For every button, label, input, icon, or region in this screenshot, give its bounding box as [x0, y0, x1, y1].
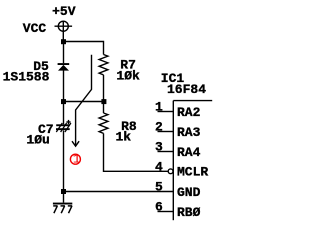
svg-text:5: 5: [155, 180, 163, 195]
svg-text:RBØ: RBØ: [177, 205, 201, 220]
svg-text:VCC: VCC: [23, 21, 47, 36]
svg-text:6: 6: [155, 200, 163, 215]
svg-text:1Øu: 1Øu: [26, 133, 49, 148]
svg-text:1Øk: 1Øk: [116, 68, 140, 83]
svg-text:1S1588: 1S1588: [3, 69, 50, 84]
svg-text:3: 3: [155, 140, 163, 155]
svg-text:MCLR: MCLR: [177, 165, 208, 180]
svg-text:1: 1: [155, 100, 163, 115]
svg-text:RA4: RA4: [177, 145, 201, 160]
svg-text:16F84: 16F84: [167, 82, 206, 97]
svg-text:RA3: RA3: [177, 125, 201, 140]
svg-text:2: 2: [155, 120, 163, 135]
svg-text:4: 4: [155, 160, 163, 175]
svg-text:1: 1: [73, 151, 81, 166]
svg-text:+5V: +5V: [52, 4, 76, 19]
svg-text:GND: GND: [177, 185, 201, 200]
svg-text:RA2: RA2: [177, 105, 201, 120]
svg-text:1k: 1k: [116, 130, 132, 145]
